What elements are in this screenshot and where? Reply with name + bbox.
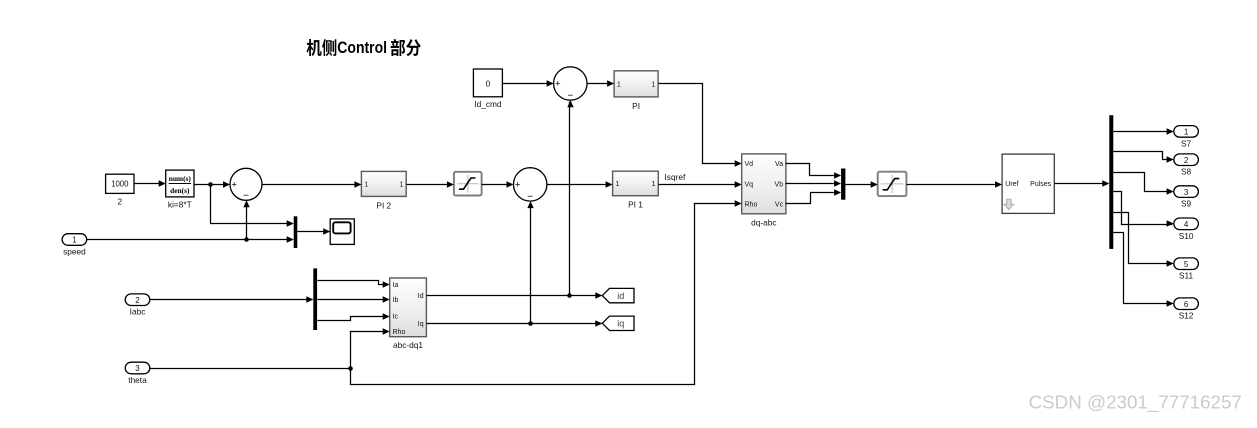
svg-text:2: 2 [1184,156,1189,165]
goto tag iq [602,316,634,330]
subsystem PI 2 [361,171,406,210]
wire dq-abc Va to mux M2 [786,164,840,176]
wire PI 1 (Isqref) to dq-abc Vq [659,184,741,186]
wire PI to dq-abc Vd [659,84,741,164]
constant block 0 Id_cmd [473,69,502,109]
svg-text:S9: S9 [1181,199,1192,209]
svg-text:1: 1 [651,81,655,88]
wire transfer fcn to sum S1 [195,184,229,186]
svg-text:iq: iq [617,319,624,329]
svg-text:Iabc: Iabc [130,307,146,317]
svg-text:Ib: Ib [393,297,399,304]
saturation block 1 [454,172,482,196]
svg-text:3: 3 [1184,188,1189,197]
subsystem PI [614,71,658,111]
svg-text:Vd: Vd [745,161,754,168]
wire sum S2 to PI 1 [547,184,612,186]
outport 4 S10 [1174,218,1199,241]
svg-text:Id_cmd: Id_cmd [474,99,502,109]
svg-text:speed: speed [63,247,86,257]
svg-text:id: id [617,291,624,301]
svg-text:0: 0 [486,78,491,88]
outport 6 S12 [1174,298,1199,321]
svg-text:1: 1 [399,182,403,189]
saturation block 2 [878,172,907,196]
wire demux D2 to S9 [1114,173,1173,192]
svg-text:num(s): num(s) [169,174,192,183]
wire Id_cmd to sum S3 [503,83,553,85]
wire speed to mux M1 input 2 [87,239,293,241]
wire demux D2 to S11 [1114,213,1173,264]
wire sum S3 to PI [588,83,613,85]
sum block S2 (iq loop) [514,168,547,203]
wire demux D2 to S7 [1114,131,1173,133]
wire speed branch up to sum S1 minus [246,202,248,240]
svg-text:Id: Id [418,293,424,300]
svg-text:Rho: Rho [745,201,758,208]
demux D2 (pulses demux) [1109,115,1113,249]
transfer fcn block ki=8*T [166,170,194,209]
svg-text:abc-dq1: abc-dq1 [393,340,423,350]
svg-text:−: − [527,191,533,202]
wire demux D2 to S10 [1114,192,1173,225]
svg-text:theta: theta [128,375,147,385]
svg-text:Vc: Vc [775,201,784,208]
svg-text:1: 1 [1184,128,1189,137]
svg-text:Ia: Ia [393,282,399,289]
inport 1 speed [62,234,87,257]
wire theta branch to abc-dq1 Rho [351,332,389,369]
svg-text:Isqref: Isqref [665,172,686,182]
wire PI 2 to saturation 1 [407,184,453,186]
outport 1 S7 [1174,126,1199,149]
wire demux D1 out3 to abc-dq1 Ic [318,317,389,321]
sum block S1 (speed loop) [230,168,262,201]
wire abc-dq1 Iq to goto iq [427,323,602,325]
svg-text:Iq: Iq [418,321,424,328]
wire Id feedback to sum S3 minus [569,102,571,296]
wire mux M2 to saturation 2 [846,184,877,186]
svg-text:2: 2 [135,296,140,305]
svg-text:1: 1 [72,236,77,245]
outport 2 S8 [1174,154,1199,177]
wire dq-abc Vb to mux M2 [786,183,840,185]
svg-text:5: 5 [1184,260,1189,269]
svg-text:1: 1 [615,181,619,188]
svg-text:+: + [231,180,237,191]
svg-text:S11: S11 [1179,271,1194,281]
svg-text:1: 1 [364,182,368,189]
svg-text:Vb: Vb [775,181,784,188]
svg-text:den(s): den(s) [170,186,190,195]
goto tag id [602,288,634,302]
svg-text:CSDN @2301_77716257: CSDN @2301_77716257 [1029,391,1242,413]
svg-text:4: 4 [1184,220,1189,229]
wire dq-abc Vc to mux M2 [786,193,840,204]
svg-text:PI 1: PI 1 [628,200,643,210]
inport 2 Iabc [125,294,150,317]
wire branch to mux M1 input 1 [211,185,293,224]
wire theta trunk [150,368,351,370]
svg-text:−: − [243,191,249,202]
svg-text:Uref: Uref [1005,181,1018,188]
svg-text:S10: S10 [1179,231,1194,241]
wire saturation 1 to sum S2 [482,184,513,186]
svg-text:Ic: Ic [393,314,399,321]
svg-text:1000: 1000 [111,180,129,189]
wire saturation 2 to Uref [907,184,1001,186]
svg-text:S8: S8 [1181,167,1192,177]
svg-text:ki=8*T: ki=8*T [168,199,192,209]
svg-text:Control: Control [337,39,387,57]
svg-text:+: + [515,180,521,191]
svg-text:1: 1 [617,81,621,88]
subsystem abc-dq1 [390,278,427,350]
wire theta branch to dq-abc Rho [351,204,741,385]
mux M1 (scope mux) [294,216,298,248]
sum block S3 (id loop) [554,67,587,102]
svg-text:6: 6 [1184,300,1189,309]
wire demux D2 to S12 [1114,233,1173,304]
wire demux D1 out1 to abc-dq1 Ia [318,281,389,285]
demux D1 (Iabc demux) [313,268,317,330]
inport 3 theta [125,362,150,385]
svg-text:dq-abc: dq-abc [751,217,776,227]
wire sum S1 to PI 2 [263,184,361,186]
wire demux D1 out2 to abc-dq1 Ib [318,299,389,301]
wire Iabc to demux D1 [150,299,313,301]
svg-text:PI: PI [632,101,640,111]
wire abc-dq1 Id to goto id [427,295,602,297]
svg-text:Rho: Rho [393,329,406,336]
wire mux M1 to scope [298,231,330,233]
wire Iq feedback to sum S2 minus [530,203,532,324]
title 机侧Control部分 [307,39,421,57]
wire demux D2 to S8 [1114,152,1173,160]
mux M2 (Vabc mux) [841,169,845,200]
outport 3 S9 [1174,186,1199,209]
svg-text:Va: Va [775,161,783,168]
svg-text:Pulses: Pulses [1030,181,1052,188]
outport 5 S11 [1174,258,1199,281]
wire 1000 to transfer fcn [135,183,165,185]
svg-text:S7: S7 [1181,138,1192,148]
svg-text:3: 3 [135,364,140,373]
scope block [330,219,354,245]
svg-text:PI 2: PI 2 [376,200,391,210]
svg-text:2: 2 [117,196,122,206]
subsystem Uref/Pulses [1002,154,1054,213]
svg-text:−: − [567,90,573,101]
svg-text:S12: S12 [1179,311,1194,321]
subsystem dq-abc [742,154,786,227]
wire Uref Pulses to demux D2 [1055,183,1109,185]
svg-text:+: + [555,79,561,90]
svg-text:1: 1 [652,181,656,188]
svg-text:Vq: Vq [745,181,754,188]
constant block 1000 (label 2) [106,174,134,206]
subsystem PI 1 [613,171,659,210]
